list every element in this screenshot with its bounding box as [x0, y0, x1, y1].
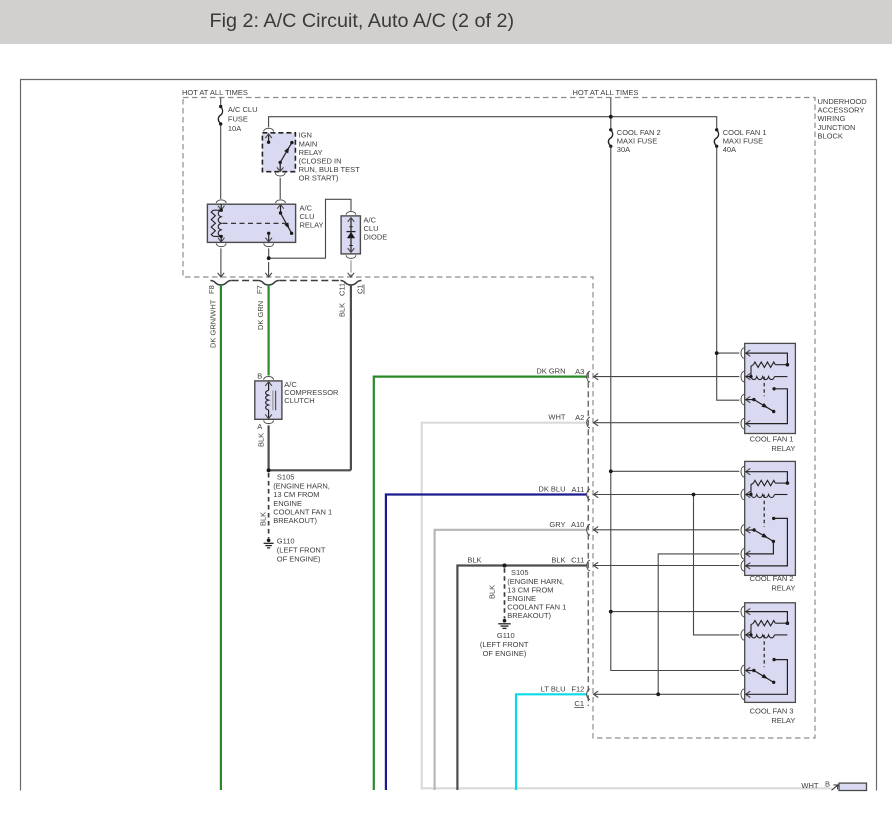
svg-text:WHT: WHT — [801, 781, 818, 790]
junction block: UNDERHOOD ACCESSORY WIRING JUNCTION BLOCK (dashed outline) — [183, 97, 867, 738]
splice S105 (left) — [267, 468, 333, 525]
wire: A/C CLU RELAY output junction to diode and F7 — [269, 199, 351, 258]
net label: HOT AT ALL TIMES (right) — [573, 88, 639, 97]
junction: 30A bus / COOL FAN 2 RELAY coil — [609, 469, 613, 473]
splice S105 (right) — [502, 563, 566, 620]
svg-text:A10: A10 — [571, 520, 584, 529]
svg-text:DIODE: DIODE — [364, 233, 388, 242]
svg-text:40A: 40A — [723, 145, 736, 154]
connector pin F7 (exit arrow) — [255, 262, 272, 294]
connector C1 face (left exit, dashed with cups) — [210, 281, 361, 285]
junction: F12 line / COOL FAN 2 RELAY branch — [656, 692, 660, 696]
svg-text:G110: G110 — [277, 537, 295, 546]
svg-text:S105: S105 — [511, 568, 529, 577]
svg-text:RELAY: RELAY — [771, 716, 795, 725]
wire: LT BLU harness to F12 — [516, 684, 587, 790]
junction: A11 / COOL FAN 3 RELAY coil branch — [692, 493, 696, 497]
wire: BLK from C11 down to splice S105 — [269, 285, 351, 471]
svg-text:OF ENGINE): OF ENGINE) — [483, 649, 527, 658]
wire: DK GRN/WHT from F8 down (harness) — [208, 285, 221, 790]
svg-text:BLK: BLK — [256, 433, 265, 447]
diode D1: A/C CLU DIODE — [341, 212, 387, 259]
svg-text:(LEFT FRONT: (LEFT FRONT — [277, 545, 326, 554]
svg-text:C11: C11 — [337, 283, 346, 296]
connector C1 pin C11 (right) — [571, 556, 598, 571]
svg-text:RELAY: RELAY — [300, 221, 324, 230]
svg-text:CLUTCH: CLUTCH — [284, 396, 314, 405]
wire: BLK harness to C11 (right) — [457, 555, 587, 790]
svg-text:F8: F8 — [207, 285, 216, 294]
wire: 30A fuse bus to COOL FAN 2/3 relays — [611, 146, 740, 670]
junction: B+ bus / COOL FAN 2 fuse feed — [609, 115, 613, 119]
wire: IGN MAIN RELAY output to A/C CLU RELAY switch — [279, 178, 281, 199]
wire: A3 to COOL FAN 1 RELAY coil — [594, 376, 740, 378]
svg-text:(LEFT FRONT: (LEFT FRONT — [480, 640, 529, 649]
component (partial): bottom-right module pin B, WHT — [801, 779, 866, 790]
connector C1 pin A3 — [575, 367, 598, 382]
junction: 40A bus / COOL FAN 1 RELAY coil — [715, 351, 719, 355]
svg-text:LT BLU: LT BLU — [541, 684, 566, 693]
wire: GRY harness to A10 — [435, 520, 587, 790]
wire: DK GRN from F7 to A/C COMPRESSOR CLUTCH — [256, 285, 269, 376]
ground G110 (right, left front of engine) — [480, 619, 529, 658]
relay: A/C CLU RELAY — [207, 200, 323, 247]
wire: A2 to COOL FAN 1 RELAY switch output — [594, 422, 740, 424]
wire: C11 to COOL FAN 2 RELAY — [594, 565, 740, 567]
svg-text:HOT AT ALL TIMES: HOT AT ALL TIMES — [182, 88, 248, 97]
svg-text:OF ENGINE): OF ENGINE) — [277, 554, 321, 563]
connector pin F8 (exit arrow) — [207, 248, 224, 294]
relay: COOL FAN 2 RELAY — [741, 461, 795, 592]
svg-text:C11: C11 — [571, 556, 584, 565]
wire: COOL FAN 2 RELAY switch output to F12 node — [658, 554, 739, 694]
svg-text:Fig 2: A/C Circuit, Auto A/C (: Fig 2: A/C Circuit, Auto A/C (2 of 2) — [210, 10, 515, 32]
fuse: COOL FAN 1 MAXI FUSE 40A — [714, 128, 766, 154]
svg-text:F7: F7 — [255, 285, 264, 294]
connector C1 pin A2 — [575, 413, 598, 428]
svg-text:BREAKOUT): BREAKOUT) — [507, 611, 551, 620]
svg-text:C1: C1 — [574, 699, 584, 708]
svg-text:BLK: BLK — [467, 555, 481, 564]
svg-text:GRY: GRY — [549, 520, 565, 529]
wire: A10 to COOL FAN 2 RELAY switch common — [594, 529, 740, 531]
svg-text:G110: G110 — [497, 631, 515, 640]
junction: 30A bus / COOL FAN 3 RELAY coil — [609, 610, 613, 614]
wire: WHT harness from A2 to bottom-right module — [422, 413, 832, 789]
wire: dashed BLK S105 to G110 (left) — [259, 473, 269, 538]
svg-text:HOT AT ALL TIMES: HOT AT ALL TIMES — [573, 88, 639, 97]
svg-text:COOL FAN 3: COOL FAN 3 — [750, 707, 794, 716]
svg-text:COOL FAN 2: COOL FAN 2 — [750, 574, 794, 583]
svg-text:A/C CLU: A/C CLU — [228, 105, 258, 114]
wire: DK BLU harness to A11 — [386, 485, 587, 791]
wire: A11 branch to COOL FAN 3 RELAY coil — [694, 495, 740, 635]
load: A/C COMPRESSOR CLUTCH — [255, 372, 339, 431]
svg-text:FUSE: FUSE — [228, 115, 248, 124]
wire: B+ bus feed (HOT AT ALL TIMES) to fuses and IGN MAIN RELAY — [269, 98, 717, 129]
connector C1 face (right, dashed vertical) — [587, 372, 589, 706]
svg-text:WHT: WHT — [548, 413, 565, 422]
fuse: COOL FAN 2 MAXI FUSE 30A — [608, 128, 660, 154]
connector pin C11 (exit arrow) + C1 name — [337, 273, 364, 296]
svg-text:BLK: BLK — [551, 555, 565, 564]
svg-text:B: B — [257, 372, 262, 381]
relay: IGN MAIN RELAY (dashed box) — [262, 128, 360, 182]
svg-text:A11: A11 — [572, 485, 585, 494]
svg-text:DK GRN: DK GRN — [536, 367, 565, 376]
svg-text:S105: S105 — [277, 473, 295, 482]
wire: F12 to COOL FAN 3 RELAY switch output — [594, 693, 740, 695]
svg-text:10A: 10A — [228, 124, 241, 133]
svg-text:BREAKOUT): BREAKOUT) — [273, 516, 317, 525]
wire: BLK from clutch pin A to splice S105 — [256, 425, 268, 470]
svg-text:A3: A3 — [575, 367, 584, 376]
svg-text:BLK: BLK — [488, 585, 497, 599]
wire: 40A fuse to COOL FAN 1 RELAY — [717, 146, 740, 400]
relay: COOL FAN 3 RELAY — [741, 603, 795, 725]
svg-text:RELAY: RELAY — [771, 584, 795, 593]
fuse F1: A/C CLU FUSE 10A — [218, 98, 257, 200]
wire: DK GRN harness to A3 — [374, 367, 587, 790]
svg-text:30A: 30A — [617, 145, 630, 154]
svg-text:A: A — [257, 422, 262, 431]
svg-text:BLK: BLK — [337, 303, 346, 317]
connector C1 pin A11 — [572, 485, 599, 500]
svg-text:OR START): OR START) — [299, 174, 339, 183]
wire: diode to connector C1 pin C11 — [350, 260, 352, 272]
svg-text:RELAY: RELAY — [771, 444, 795, 453]
net label: HOT AT ALL TIMES (left) — [182, 88, 248, 97]
ground G110 (left front of engine) — [264, 537, 326, 564]
svg-text:DK BLU: DK BLU — [538, 485, 565, 494]
connector C1 pin A10 — [571, 520, 598, 535]
svg-text:F12: F12 — [571, 685, 584, 694]
svg-text:C1: C1 — [356, 284, 365, 294]
svg-text:COOL FAN 1: COOL FAN 1 — [750, 435, 794, 444]
svg-text:B: B — [825, 779, 830, 788]
svg-text:A2: A2 — [575, 413, 584, 422]
junction: relay output / diode / F7 — [267, 256, 271, 260]
wire: dashed BLK S105 to G110 (right) — [488, 568, 505, 618]
svg-text:BLOCK: BLOCK — [818, 131, 843, 140]
svg-text:DK GRN: DK GRN — [256, 301, 265, 330]
connector C1 pin F12 + C1 name — [571, 685, 598, 708]
svg-text:DK GRN/WHT: DK GRN/WHT — [208, 299, 217, 348]
relay: COOL FAN 1 RELAY — [741, 343, 795, 453]
svg-text:BLK: BLK — [259, 512, 268, 526]
wire: A11 to COOL FAN 2 RELAY coil — [594, 494, 740, 496]
